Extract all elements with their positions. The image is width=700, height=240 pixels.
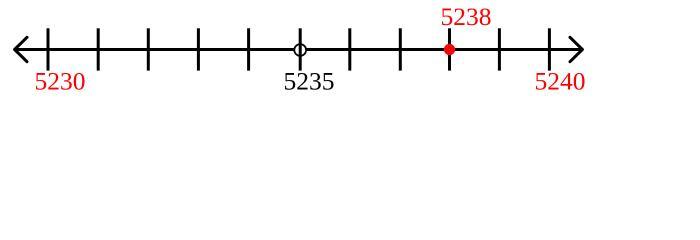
open circle at 5235 [294,44,306,56]
tick 5235 [299,28,302,70]
left arrowhead [15,37,27,61]
red point at 5238 [444,44,455,55]
tick 5232 [147,28,150,70]
svg-text:5238: 5238 [441,2,492,31]
tick 5238 [448,28,451,70]
right arrowhead [570,37,582,61]
tick 5237 [399,28,402,70]
svg-text:5240: 5240 [535,66,586,95]
tick 5239 [498,28,501,70]
tick 5234 [247,28,250,70]
tick 5231 [97,28,100,70]
svg-text:5230: 5230 [35,66,86,95]
number line [15,48,582,51]
tick 5230 [47,28,50,70]
svg-text:5235: 5235 [284,66,335,95]
tick 5240 [548,28,551,70]
tick 5236 [348,28,351,70]
tick 5233 [197,28,200,70]
